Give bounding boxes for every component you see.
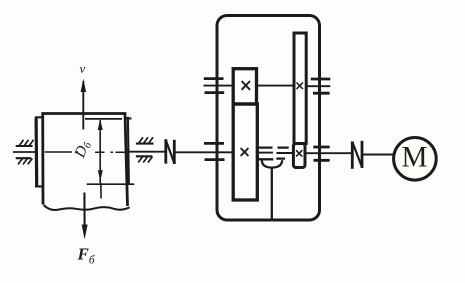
coupling 1 [166,139,175,164]
pedestal post [271,168,273,219]
bearing upper-left wall [204,79,224,93]
svg-text:v: v [80,61,86,76]
svg-text:Fб: Fб [77,245,96,267]
dimension line Dб [99,120,102,199]
svg-text:Dб: Dб [71,138,95,161]
motor M circle [394,138,437,181]
middle bearing (output shaft end) [259,148,274,160]
wheel z4 (output shaft, left column) [233,104,257,200]
drum right flange [124,117,131,185]
belt force arrow Fб [83,193,85,227]
x mark wheel z2 [297,83,303,90]
gearbox housing [217,16,320,221]
wheel z2 (upper shaft, right column) [294,33,306,144]
input shaft stub from middle bearing [277,152,294,154]
x mark pinion z1 [296,150,302,156]
bearing pedestal bracket [262,160,282,167]
velocity arrow v [82,81,84,130]
x mark wheel z4 [241,148,249,156]
shaft drum to coupling [129,151,166,153]
x mark pinion z3 [242,81,250,90]
drum body [43,114,128,207]
middle bearing (input shaft end) [276,148,288,159]
upper shaft (intermediate) [204,85,331,88]
bearing lower-right wall [313,147,329,160]
coupling 2 [352,141,362,169]
output shaft stub to middle bearing [257,152,273,154]
shaft coupling 2 to motor [362,154,394,156]
pinion z1 (input shaft, right column) [293,144,305,168]
drum left support bearing [16,140,34,165]
shaft coupling 1 to gearbox wheel [174,151,233,153]
shaft gearbox to coupling 2 [305,152,352,154]
drum break (wavy belt line) [44,205,130,210]
pinion z3 (upper shaft, left column) [233,69,256,104]
drum right support bearing [136,137,154,162]
bearing lower-left wall [204,143,225,159]
drum left flange [35,117,44,186]
svg-text:M: M [402,141,428,174]
bearing upper-right wall [311,79,331,93]
drum centerline (dash-dot axis) [13,151,36,153]
dimension extension lines [85,119,134,184]
